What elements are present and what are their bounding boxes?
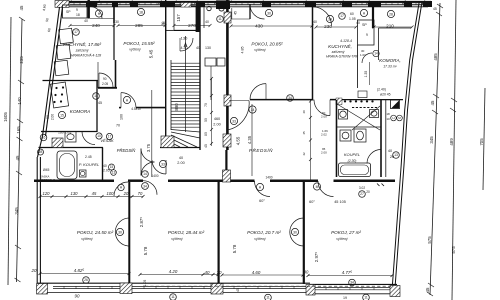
- svg-text:70: 70: [116, 124, 120, 128]
- svg-text:30: 30: [293, 230, 297, 234]
- landing right dark wall: [196, 6, 200, 32]
- door arc room3: [250, 84, 266, 100]
- pipe circle top: [219, 6, 224, 11]
- svg-text:45: 45: [92, 191, 97, 196]
- svg-text:POKOJ, 15.55²: POKOJ, 15.55²: [123, 41, 155, 46]
- svg-text:2.97⁵: 2.97⁵: [314, 252, 319, 263]
- wall right of SP: [87, 0, 89, 19]
- svg-text:45: 45: [302, 131, 306, 135]
- komora-L right wall: [96, 81, 98, 133]
- svg-text:15: 15: [60, 113, 64, 117]
- nook door arc: [99, 73, 113, 87]
- rotated room dims: [139, 14, 319, 262]
- svg-text:4.82⁵: 4.82⁵: [74, 268, 85, 273]
- light well strip: [203, 6, 205, 28]
- left chain labels: [3, 5, 24, 215]
- kitchen nook bottom wall: [98, 87, 117, 89]
- svg-text:9: 9: [76, 8, 78, 12]
- right corridor circles: [391, 115, 397, 121]
- svg-text:100: 100: [107, 191, 115, 196]
- svg-text:34: 34: [288, 96, 292, 100]
- svg-text:100: 100: [120, 114, 124, 120]
- wc hatch floor: [52, 138, 63, 148]
- svg-text:28: 28: [389, 12, 393, 16]
- door arc spine to predsin upper: [228, 101, 250, 131]
- svg-text:1400: 1400: [265, 176, 272, 180]
- svg-text:zařízený: zařízený: [331, 50, 345, 54]
- svg-text:17: 17: [340, 14, 344, 18]
- svg-text:4.5x10: 4.5x10: [131, 107, 141, 111]
- wc diagonals: [337, 104, 380, 130]
- spine wall: [226, 0, 229, 150]
- right corridor wall line: [385, 100, 387, 177]
- left lower exterior wall double: [37, 157, 40, 283]
- svg-text:30: 30: [267, 11, 271, 15]
- stair shaft left wall: [165, 0, 167, 148]
- svg-text:KOUPEL: KOUPEL: [344, 152, 360, 157]
- svg-text:130: 130: [71, 191, 79, 196]
- stair bottom wall: [160, 147, 200, 149]
- svg-text:5.45: 5.45: [149, 49, 154, 58]
- svg-text:45: 45: [19, 5, 24, 10]
- room3/kitchenR wall: [312, 6, 314, 26]
- R3/R4 connecting door arcs: [290, 218, 304, 232]
- svg-text:3.75: 3.75: [146, 143, 151, 152]
- svg-text:80: 80: [204, 132, 208, 136]
- top dimension labels: [92, 22, 394, 41]
- svg-text:90: 90: [46, 115, 50, 119]
- svg-text:30: 30: [162, 21, 166, 25]
- svg-text:30: 30: [118, 230, 122, 234]
- svg-text:33: 33: [232, 119, 236, 123]
- svg-text:P. KOUPEL: P. KOUPEL: [79, 162, 100, 167]
- hall door arc lower right: [152, 160, 166, 174]
- svg-text:2.00: 2.00: [51, 114, 55, 120]
- svg-text:50: 50: [204, 118, 208, 122]
- svg-text:489: 489: [449, 138, 454, 146]
- kitchen nook side wall: [115, 60, 117, 89]
- svg-text:40: 40: [356, 21, 360, 25]
- svg-text:34: 34: [350, 281, 354, 285]
- svg-text:3.02: 3.02: [359, 186, 365, 190]
- komora-L top wall: [43, 80, 99, 82]
- svg-text:výčlený: výčlený: [254, 48, 266, 52]
- svg-text:2.05: 2.05: [102, 82, 108, 86]
- svg-text:výčlený: výčlený: [81, 237, 93, 241]
- stair shaft right wall: [199, 6, 201, 150]
- svg-text:výčlený: výčlený: [171, 237, 183, 241]
- svg-text:90: 90: [75, 294, 80, 299]
- svg-text:9: 9: [366, 33, 368, 37]
- bottom room labels: [77, 230, 362, 241]
- stair vdim line: [211, 78, 213, 146]
- svg-text:20: 20: [366, 190, 370, 194]
- wc block walls: [336, 100, 338, 177]
- spine hatch blocks: [223, 12, 232, 182]
- svg-text:45: 45: [98, 101, 102, 105]
- svg-text:(2.40): (2.40): [377, 88, 386, 92]
- svg-text:90: 90: [45, 18, 49, 22]
- svg-text:230: 230: [324, 24, 332, 29]
- svg-text:2.00: 2.00: [177, 161, 184, 165]
- svg-text:460: 460: [214, 117, 220, 121]
- svg-text:4.55: 4.55: [236, 136, 241, 145]
- svg-text:17.33 m²: 17.33 m²: [383, 65, 397, 69]
- svg-text:210: 210: [386, 24, 394, 29]
- top wall dimension ticks: [69, 1, 426, 5]
- bathtub left: [57, 151, 77, 179]
- bath texts: [40, 131, 110, 182]
- svg-text:4.85: 4.85: [241, 47, 245, 54]
- svg-text:157: 157: [176, 14, 181, 22]
- kitchen nook left line: [97, 62, 99, 88]
- landing inner line: [173, 6, 175, 30]
- svg-text:140: 140: [17, 97, 22, 105]
- svg-text:17: 17: [74, 30, 78, 34]
- top wall tiny dims: [84, 19, 360, 25]
- stair arrow head: [184, 43, 187, 47]
- hall top wall: [119, 107, 121, 109]
- light well small rects: [205, 58, 216, 66]
- svg-text:19: 19: [343, 296, 347, 300]
- svg-text:1.00: 1.00: [360, 53, 366, 57]
- svg-text:40: 40: [388, 149, 392, 153]
- room3 west door wall: [249, 4, 251, 19]
- svg-text:45: 45: [236, 288, 240, 292]
- svg-text:485: 485: [433, 53, 438, 61]
- svg-text:235: 235: [19, 56, 24, 64]
- cabinet boxes along left slant: [54, 28, 73, 75]
- svg-text:10: 10: [386, 117, 390, 121]
- room label kuchyne-L: [63, 40, 102, 58]
- svg-text:HRAKATOVÁ 4-128: HRAKATOVÁ 4-128: [71, 54, 101, 58]
- svg-text:60°: 60°: [309, 200, 315, 204]
- svg-text:14: 14: [251, 108, 255, 112]
- svg-text:28: 28: [39, 150, 43, 154]
- svg-text:14: 14: [94, 94, 98, 98]
- door arc room3 top: [313, 7, 332, 26]
- right slant exterior wall: [392, 2, 422, 288]
- svg-text:ø20 45: ø20 45: [380, 93, 391, 97]
- svg-text:POKOJ, 24.50 m²: POKOJ, 24.50 m²: [77, 230, 114, 235]
- door arc predsin to R3: [255, 181, 271, 197]
- svg-text:45 105: 45 105: [334, 200, 346, 204]
- svg-text:4-128-4: 4-128-4: [340, 39, 352, 43]
- R2/R3 wall: [218, 182, 220, 283]
- svg-text:345: 345: [429, 136, 434, 144]
- stair center line: [185, 36, 187, 132]
- svg-text:18: 18: [76, 13, 80, 17]
- svg-text:160 2.05: 160 2.05: [58, 131, 71, 135]
- hall dim line vertical: [151, 90, 153, 177]
- koupel tub: [339, 163, 371, 177]
- komora-L bottom wall: [41, 131, 97, 133]
- svg-text:1400: 1400: [151, 174, 158, 178]
- svg-text:40: 40: [103, 164, 107, 168]
- dim ticks bottom rows: [39, 195, 394, 277]
- svg-text:2.87⁵: 2.87⁵: [139, 217, 144, 228]
- hall entry door arc: [121, 93, 136, 108]
- svg-text:40: 40: [302, 110, 306, 114]
- spine side line: [231, 8, 233, 19]
- bottom wall window double lines: [53, 286, 390, 289]
- svg-text:M: M: [316, 185, 319, 189]
- svg-text:130: 130: [205, 46, 211, 50]
- svg-text:45: 45: [204, 144, 208, 148]
- svg-text:14: 14: [143, 172, 147, 176]
- svg-text:5.78: 5.78: [232, 244, 237, 253]
- svg-text:42: 42: [302, 152, 306, 156]
- svg-text:výčlený: výčlený: [336, 237, 348, 241]
- svg-text:2.00: 2.00: [213, 123, 220, 127]
- landing bottom wall: [174, 29, 200, 31]
- bath block top wall: [39, 147, 104, 149]
- room label pokoj3: [251, 42, 283, 53]
- svg-text:11: 11: [266, 296, 270, 300]
- svg-text:345: 345: [14, 207, 19, 215]
- top dimension line segments: [70, 26, 412, 28]
- reference circles: [38, 8, 400, 300]
- svg-text:výčlený: výčlený: [129, 48, 141, 52]
- svg-text:45: 45: [430, 100, 435, 105]
- svg-text:15: 15: [110, 165, 114, 169]
- svg-text:705: 705: [479, 138, 484, 146]
- wc basin right: [370, 110, 379, 118]
- dimension chain left inner: [17, 19, 23, 282]
- door arc hall to R4: [318, 181, 334, 197]
- top exterior wall inner line: [58, 6, 428, 8]
- svg-text:13: 13: [112, 171, 116, 175]
- room label pokoj2: [123, 41, 155, 52]
- stair winder steps: [171, 130, 200, 148]
- svg-text:40: 40: [304, 270, 309, 275]
- sill dashed line: [145, 285, 392, 287]
- stair steps: [171, 63, 200, 127]
- svg-text:18: 18: [139, 10, 143, 14]
- right chain labels: [425, 53, 484, 293]
- svg-text:60: 60: [47, 28, 51, 32]
- koupel door arc: [367, 150, 381, 164]
- koupel washbasin: [340, 130, 351, 141]
- svg-text:30: 30: [115, 20, 119, 24]
- svg-text:90: 90: [103, 77, 107, 81]
- svg-text:4.35: 4.35: [247, 135, 252, 144]
- svg-text:KUCHYNĚ,: KUCHYNĚ,: [328, 42, 352, 49]
- svg-text:Ø45: Ø45: [43, 168, 50, 172]
- dimension chain right outer: [452, 0, 456, 300]
- svg-text:2.05: 2.05: [103, 169, 110, 173]
- svg-text:130: 130: [181, 36, 188, 41]
- closet wall thick: [372, 6, 374, 28]
- kitchen-R closet SP: [358, 20, 375, 45]
- tick marks left chain: [15, 17, 26, 282]
- landing dims: [181, 46, 212, 50]
- bath dimension row: [40, 196, 143, 198]
- svg-text:575: 575: [451, 246, 456, 254]
- top wall solid piers: [55, 0, 432, 9]
- kitchenR bottom dotted wall: [336, 98, 403, 105]
- left slant to lower wall transition: [38, 136, 43, 157]
- koupel label: [344, 152, 360, 163]
- svg-text:120: 120: [43, 191, 51, 196]
- svg-text:4.77⁵: 4.77⁵: [342, 270, 353, 275]
- svg-text:4.60: 4.60: [42, 4, 47, 11]
- small fixture rect bath: [80, 170, 87, 177]
- svg-text:SP: SP: [362, 23, 367, 27]
- svg-text:POKOJ, 28.44 m²: POKOJ, 28.44 m²: [168, 230, 205, 235]
- stair small dims: [151, 117, 394, 204]
- svg-text:33: 33: [161, 162, 165, 166]
- dimension chain right short: [483, 88, 485, 190]
- long hall wall above bottom rooms: [34, 179, 395, 182]
- svg-text:70: 70: [138, 191, 143, 196]
- svg-text:13: 13: [394, 153, 398, 157]
- svg-text:40: 40: [84, 19, 88, 23]
- R1/R2 connecting door arcs: [115, 218, 129, 232]
- kitchenR south wall segment + door: [330, 99, 337, 101]
- svg-text:890: 890: [174, 103, 179, 111]
- door threshold top-left: [90, 18, 114, 20]
- black triangle symbol: [391, 100, 400, 109]
- bottom dimension row: [31, 268, 353, 299]
- stair vdim labels: [204, 103, 208, 148]
- hatched corner block top-left: [55, 1, 69, 8]
- kitchen-L / room2 wall: [113, 2, 115, 23]
- predsin right walls area small marks: [377, 184, 384, 187]
- stair top landing box: [166, 6, 200, 30]
- svg-text:16: 16: [42, 136, 46, 140]
- svg-text:45: 45: [15, 155, 20, 160]
- room3 bottom wall: [250, 99, 313, 101]
- svg-text:165: 165: [16, 126, 21, 134]
- svg-text:KOMORA: KOMORA: [70, 109, 90, 114]
- svg-text:20: 20: [31, 268, 37, 273]
- svg-text:20: 20: [123, 191, 129, 196]
- top wall window double lines: [70, 3, 431, 5]
- light well vertical: [210, 66, 212, 100]
- bottom wall hatched piers: [37, 283, 401, 297]
- top dim row end ticks: [69, 24, 414, 29]
- stair bottom hatch block: [161, 136, 174, 148]
- dimension chain left outer: [8, 17, 11, 285]
- svg-text:34: 34: [328, 17, 332, 21]
- door arc H top-left: [90, 7, 102, 19]
- svg-text:POKOJ, 27 m²: POKOJ, 27 m²: [331, 230, 361, 235]
- svg-text:4.60: 4.60: [252, 270, 261, 275]
- svg-text:HRAKA-STKNN-TRF: HRAKA-STKNN-TRF: [326, 55, 359, 59]
- R3/R4 wall: [303, 182, 305, 284]
- komora-L dotted shelf: [50, 82, 68, 108]
- room label kuchyne-R: [326, 39, 359, 59]
- bottom wall window mullions: [64, 286, 374, 289]
- komora-R left wall: [378, 28, 380, 60]
- svg-text:18: 18: [386, 112, 390, 116]
- top wall window mullions: [74, 3, 416, 5]
- svg-text:5.78: 5.78: [143, 246, 148, 255]
- svg-text:1.05: 1.05: [349, 17, 356, 21]
- svg-text:40: 40: [313, 20, 317, 24]
- svg-text:KOMORA,: KOMORA,: [379, 58, 401, 63]
- svg-text:11: 11: [218, 17, 222, 21]
- toilet top: [65, 132, 76, 143]
- bottom exterior wall band: [37, 283, 400, 294]
- svg-text:1.35: 1.35: [364, 71, 368, 78]
- door arc hall to R2: [143, 181, 157, 195]
- svg-text:40: 40: [205, 20, 209, 24]
- svg-text:PŘEDSÍŇ: PŘEDSÍŇ: [249, 146, 273, 153]
- svg-text:(2.30): (2.30): [348, 159, 357, 163]
- svg-text:POKOJ, 20.85²: POKOJ, 20.85²: [251, 42, 283, 47]
- svg-text:PŘEDSÍŇ: PŘEDSÍŇ: [117, 148, 137, 153]
- room label komora-R: [379, 58, 401, 69]
- wc basin left: [339, 110, 348, 120]
- dimension chain right inner: [430, 3, 440, 295]
- top-left slant rotated dims: [42, 4, 51, 32]
- svg-text:17: 17: [108, 135, 112, 139]
- svg-text:60: 60: [350, 12, 354, 16]
- svg-text:výčlený: výčlený: [254, 237, 266, 241]
- svg-text:1605: 1605: [3, 112, 8, 122]
- svg-text:575: 575: [427, 236, 432, 244]
- door arc hall to R1: [114, 182, 128, 196]
- predsin-R vdim: [251, 104, 253, 176]
- svg-text:45: 45: [425, 287, 430, 292]
- svg-text:60°: 60°: [259, 199, 265, 203]
- pantry SP box top-left: [63, 5, 88, 18]
- svg-text:4.20: 4.20: [169, 269, 178, 274]
- svg-text:45: 45: [433, 7, 437, 11]
- svg-text:34: 34: [143, 184, 147, 188]
- koupel wc bowl: [354, 129, 366, 142]
- svg-text:SP: SP: [66, 10, 71, 14]
- svg-text:11: 11: [171, 295, 175, 299]
- landing door arc: [180, 38, 193, 51]
- top exterior wall outer line: [55, 1, 431, 3]
- hall small dims: [98, 101, 151, 152]
- svg-text:11: 11: [364, 296, 368, 300]
- svg-text:26: 26: [84, 278, 88, 282]
- svg-text:zařízený: zařízený: [75, 49, 89, 53]
- bath small circles refs: [109, 164, 115, 170]
- komora-R top line: [379, 27, 412, 29]
- wc dashes: [352, 107, 377, 109]
- left slant exterior wall: [43, 7, 63, 136]
- svg-text:2.45: 2.45: [85, 155, 92, 159]
- svg-text:10: 10: [97, 134, 101, 138]
- svg-text:H: H: [392, 116, 394, 120]
- svg-text:40: 40: [179, 156, 183, 160]
- predsin-R west vdim: [310, 100, 312, 180]
- svg-text:70: 70: [204, 103, 208, 107]
- landing hatch: [181, 3, 191, 7]
- R1/R2 wall: [128, 182, 130, 283]
- svg-text:2.02: 2.02: [321, 133, 327, 137]
- svg-text:27: 27: [360, 192, 364, 196]
- door arc bath vestibule: [82, 132, 95, 145]
- svg-text:POKOJ, 20.7 m²: POKOJ, 20.7 m²: [247, 230, 281, 235]
- svg-text:KUCHYNĚ, 17.86²: KUCHYNĚ, 17.86²: [63, 40, 102, 47]
- svg-text:1.05: 1.05: [143, 280, 147, 287]
- hall double door arcs: [141, 149, 155, 163]
- svg-text:45: 45: [234, 11, 238, 15]
- bath right wall: [102, 148, 104, 183]
- svg-text:2.00: 2.00: [321, 151, 327, 155]
- svg-text:14: 14: [374, 52, 378, 56]
- stair left rail line: [170, 60, 172, 130]
